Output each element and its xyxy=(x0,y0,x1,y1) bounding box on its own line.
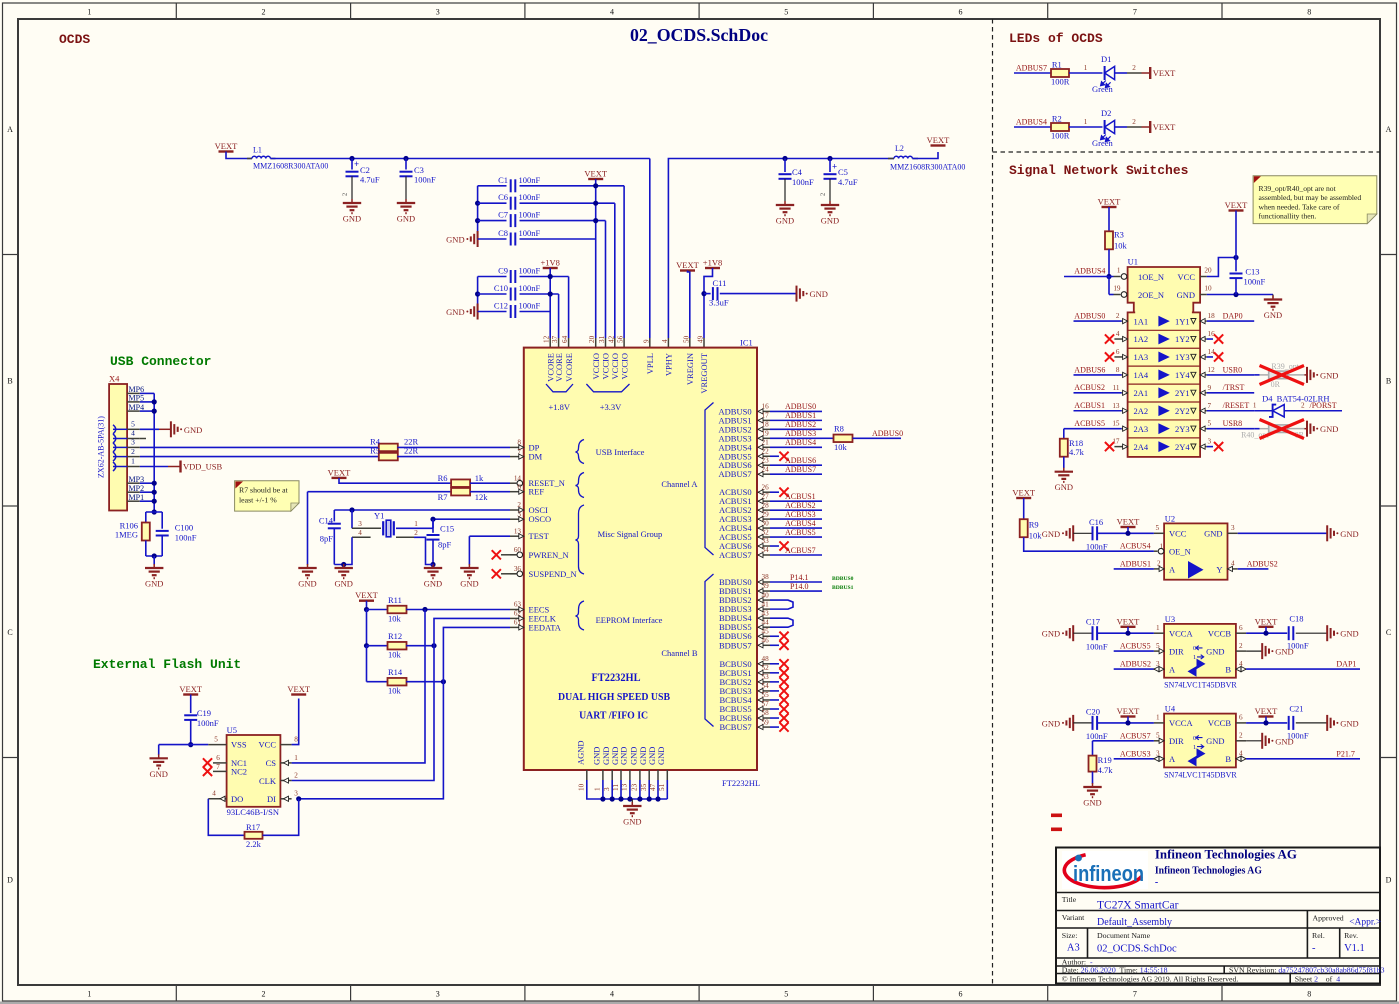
svg-text:3: 3 xyxy=(603,787,611,791)
wire EECLK net xyxy=(292,618,510,780)
capacitor C19 100nF xyxy=(184,714,197,716)
svg-text:VEXT: VEXT xyxy=(1255,706,1278,716)
resistor R106 1MEG xyxy=(145,512,147,523)
svg-text:49: 49 xyxy=(697,335,705,343)
ground GND (C15) xyxy=(432,564,434,568)
ground GND (U1) xyxy=(1272,295,1274,299)
svg-text:C13: C13 xyxy=(1245,266,1259,276)
svg-text:ADBUS1: ADBUS1 xyxy=(785,411,816,420)
svg-text:B: B xyxy=(1386,376,1391,385)
capacitor C4 100nF xyxy=(784,159,786,173)
svg-text:2: 2 xyxy=(342,193,349,196)
svg-text:2: 2 xyxy=(414,529,418,537)
svg-text:ADBUS2: ADBUS2 xyxy=(785,420,816,429)
svg-text:1: 1 xyxy=(1156,714,1160,722)
svg-text:+1V8: +1V8 xyxy=(540,258,559,268)
wire xyxy=(397,446,510,448)
svg-text:100R: 100R xyxy=(1051,76,1070,86)
svg-text:3: 3 xyxy=(294,790,298,798)
svg-text:10k: 10k xyxy=(834,442,848,452)
ground GND (U4 pin2) xyxy=(1261,733,1263,749)
svg-text:<Appr.>: <Appr.> xyxy=(1349,918,1381,928)
svg-text:DM: DM xyxy=(529,452,543,462)
svg-text:1Y1: 1Y1 xyxy=(1175,316,1190,326)
resistor R2 100R xyxy=(1051,123,1069,131)
svg-text:37: 37 xyxy=(551,335,559,343)
wire xyxy=(396,527,433,529)
svg-text:1MEG: 1MEG xyxy=(115,530,138,540)
svg-text:7: 7 xyxy=(1133,990,1137,999)
inductor L2 MMZ1608R300ATA00 xyxy=(888,158,894,160)
wire xyxy=(146,511,162,513)
svg-text:12: 12 xyxy=(543,335,551,343)
svg-text:ADBUS2: ADBUS2 xyxy=(1247,559,1278,568)
svg-text:GND: GND xyxy=(1206,736,1224,746)
wire xyxy=(367,681,388,683)
capacitor C20 100nF xyxy=(1073,722,1092,724)
X4 pin 1 xyxy=(127,466,140,468)
svg-text:100nF: 100nF xyxy=(197,718,219,728)
svg-text:2: 2 xyxy=(261,8,265,17)
wire xyxy=(433,519,510,528)
resistor R1 100R xyxy=(1051,69,1069,77)
svg-text:VEXT: VEXT xyxy=(1225,200,1248,210)
svg-text:GND: GND xyxy=(1042,529,1060,539)
svg-text:13: 13 xyxy=(621,783,629,791)
svg-text:51: 51 xyxy=(658,783,666,791)
svg-text:GND: GND xyxy=(1055,482,1073,492)
svg-text:ADBUS6: ADBUS6 xyxy=(785,456,816,465)
IC U3 SN74LVC1T45DBVR xyxy=(1164,624,1236,678)
svg-text:1: 1 xyxy=(131,457,135,466)
ground GND (C11) xyxy=(796,286,798,302)
svg-text:VEXT: VEXT xyxy=(584,169,607,179)
marker dash 2 xyxy=(1051,828,1062,832)
svg-text:1: 1 xyxy=(1193,654,1196,661)
svg-text:Channel A: Channel A xyxy=(661,479,698,489)
svg-text:4: 4 xyxy=(610,990,614,999)
svg-text:EEDATA: EEDATA xyxy=(529,622,562,632)
wire xyxy=(146,555,162,557)
svg-text:Y: Y xyxy=(1216,564,1222,574)
ground GND (C19) xyxy=(158,754,160,758)
svg-text:10: 10 xyxy=(1204,285,1212,293)
svg-text:BCBUS7: BCBUS7 xyxy=(719,722,751,732)
svg-text:D4: D4 xyxy=(1262,394,1273,404)
svg-text:2: 2 xyxy=(131,447,135,456)
svg-text:100nF: 100nF xyxy=(1086,542,1108,552)
X4 pin MP3 xyxy=(127,482,140,484)
wire xyxy=(853,437,902,439)
svg-text:VCORE: VCORE xyxy=(554,353,564,382)
svg-text:1: 1 xyxy=(594,787,602,791)
svg-text:U4: U4 xyxy=(1165,704,1176,714)
svg-text:10k: 10k xyxy=(1114,241,1128,251)
svg-text:3: 3 xyxy=(131,438,135,447)
svg-text:R17: R17 xyxy=(246,822,260,832)
svg-text:1: 1 xyxy=(1084,64,1088,72)
svg-text:4: 4 xyxy=(661,339,669,343)
svg-text:VEXT: VEXT xyxy=(1117,706,1140,716)
ground GND (C14) xyxy=(343,564,345,568)
resistor R4 22R xyxy=(379,444,398,452)
svg-text:100nF: 100nF xyxy=(1086,731,1108,741)
svg-text:14: 14 xyxy=(1208,348,1216,356)
svg-text:V1.1: V1.1 xyxy=(1344,943,1365,954)
svg-text:ADBUS7: ADBUS7 xyxy=(785,465,816,474)
svg-text:2: 2 xyxy=(1239,642,1243,650)
svg-text:7: 7 xyxy=(1133,8,1137,17)
resistor R5 22R xyxy=(379,453,398,461)
svg-text:Date: 26.06.2020 Time: 14:55:: Date: 26.06.2020 Time: 14:55:18 xyxy=(1062,965,1168,974)
svg-text:6: 6 xyxy=(216,754,220,762)
svg-text:2OE_N: 2OE_N xyxy=(1138,290,1164,300)
wire xyxy=(190,695,192,714)
capacitor C10 100nF xyxy=(478,293,507,295)
svg-text:NC2: NC2 xyxy=(231,767,247,777)
svg-text:1: 1 xyxy=(1193,744,1196,751)
capacitor C7 100nF xyxy=(478,220,507,222)
power VEXT (D1) xyxy=(1142,72,1150,74)
svg-text:GND: GND xyxy=(1042,629,1060,639)
svg-text:DI: DI xyxy=(267,794,276,804)
svg-text:GND: GND xyxy=(334,579,352,589)
X4 pin MP1 xyxy=(127,500,140,502)
IC U1 buffer channel section xyxy=(1128,312,1201,457)
svg-text:A: A xyxy=(7,125,13,134)
svg-text:Size:: Size: xyxy=(1062,931,1078,940)
svg-text:AGND: AGND xyxy=(576,740,586,765)
svg-text:C7: C7 xyxy=(498,210,508,220)
node C2 junction xyxy=(349,156,354,161)
svg-text:VCCA: VCCA xyxy=(1169,718,1193,728)
svg-text:8: 8 xyxy=(1307,990,1311,999)
wire xyxy=(1108,277,1110,295)
svg-text:ACBUS3: ACBUS3 xyxy=(1120,749,1151,758)
svg-text:VEXT: VEXT xyxy=(676,260,699,270)
svg-text:MMZ1608R300ATA00: MMZ1608R300ATA00 xyxy=(890,163,965,172)
svg-text:TC27X SmartCar: TC27X SmartCar xyxy=(1097,900,1179,912)
pin 56 stub xyxy=(623,338,625,348)
svg-text:L1: L1 xyxy=(253,146,262,155)
svg-text:1: 1 xyxy=(1156,624,1160,632)
svg-text:GND: GND xyxy=(460,579,478,589)
svg-text:4.7uF: 4.7uF xyxy=(838,177,858,187)
svg-text:R7: R7 xyxy=(438,492,448,502)
svg-text:8: 8 xyxy=(1307,8,1311,17)
svg-text:BDBUS1: BDBUS1 xyxy=(832,585,854,591)
svg-text:2: 2 xyxy=(294,771,298,779)
svg-text:7: 7 xyxy=(1208,402,1212,410)
capacitor C15 8pF xyxy=(432,519,434,533)
wire Y1 pin4 to ground xyxy=(352,536,371,538)
wire xyxy=(1069,126,1103,128)
svg-text:GND: GND xyxy=(145,579,163,589)
svg-text:C: C xyxy=(1386,628,1391,637)
svg-text:VEXT: VEXT xyxy=(215,141,238,151)
svg-text:1A3: 1A3 xyxy=(1134,352,1149,362)
resistor R12 10k xyxy=(388,642,407,650)
pin 4 VPHY stub xyxy=(667,338,669,348)
X4 pin 4 xyxy=(127,438,140,440)
svg-text:8: 8 xyxy=(294,736,298,744)
pin 12 stub xyxy=(549,338,551,348)
ground GND (U3 pin2) xyxy=(1261,643,1263,659)
svg-text:U3: U3 xyxy=(1165,614,1175,624)
capacitor C16 100nF xyxy=(1073,532,1092,534)
svg-text:VCCIO: VCCIO xyxy=(619,353,629,379)
svg-text:U2: U2 xyxy=(1165,514,1175,524)
svg-text:ACBUS4: ACBUS4 xyxy=(1120,542,1151,551)
resistor R7 12k xyxy=(451,488,470,496)
svg-text:20: 20 xyxy=(588,335,596,343)
wire pin5 to ground xyxy=(140,428,159,430)
wire xyxy=(688,271,690,339)
ground GND (C2) xyxy=(351,199,353,203)
svg-text:Infineon Technologies AG: Infineon Technologies AG xyxy=(1155,848,1297,862)
svg-text:LEDs of OCDS: LEDs of OCDS xyxy=(1009,31,1103,46)
unused pin PWREN_N xyxy=(501,554,516,556)
svg-text:16: 16 xyxy=(1208,330,1216,338)
svg-text:20: 20 xyxy=(1204,267,1212,275)
svg-text:DIR: DIR xyxy=(1169,646,1184,656)
wire TEST to ground xyxy=(469,535,510,537)
svg-text:2: 2 xyxy=(261,990,265,999)
svg-text:35: 35 xyxy=(640,783,648,791)
wire xyxy=(1097,632,1154,634)
svg-text:ACBUS7: ACBUS7 xyxy=(785,546,816,555)
svg-text:ADBUS4: ADBUS4 xyxy=(785,438,816,447)
wire loop BDBUS2-BDBUS3 xyxy=(770,600,793,609)
svg-text:REF: REF xyxy=(529,487,545,497)
wire GND bus xyxy=(602,770,604,780)
svg-text:TEST: TEST xyxy=(529,531,550,541)
wire EECS net xyxy=(406,609,510,611)
ground GND (R18) xyxy=(1063,468,1065,472)
capacitor C5 4.7uF xyxy=(829,159,831,173)
svg-text:4.7k: 4.7k xyxy=(1069,447,1085,457)
svg-text:100nF: 100nF xyxy=(519,210,541,220)
wire left bus C9-C12 xyxy=(477,277,479,312)
svg-text:56: 56 xyxy=(617,335,625,343)
svg-text:GND: GND xyxy=(397,214,415,224)
svg-text:10k: 10k xyxy=(1029,531,1043,541)
svg-text:VEXT: VEXT xyxy=(355,590,378,600)
svg-text:12k: 12k xyxy=(475,492,489,502)
node C3 junction xyxy=(403,156,408,161)
svg-text:C15: C15 xyxy=(440,523,454,533)
svg-text:0R: 0R xyxy=(1271,380,1281,389)
svg-text:/PORST: /PORST xyxy=(1310,401,1337,410)
svg-text:GND: GND xyxy=(623,817,641,827)
svg-text:1: 1 xyxy=(87,990,91,999)
svg-text:100nF: 100nF xyxy=(1244,277,1266,287)
svg-text:2A2: 2A2 xyxy=(1134,406,1149,416)
svg-text:GND: GND xyxy=(1275,647,1293,657)
svg-text:GND: GND xyxy=(1340,529,1358,539)
svg-text:1OE_N: 1OE_N xyxy=(1138,272,1164,282)
svg-text:GND: GND xyxy=(1083,798,1101,808)
svg-text:C5: C5 xyxy=(838,167,848,177)
svg-text:A: A xyxy=(1169,564,1176,574)
svg-text:SN74LVC1T45DBVR: SN74LVC1T45DBVR xyxy=(1164,681,1237,690)
ground GND (C9 group) xyxy=(477,304,479,320)
wire xyxy=(366,601,368,610)
wire left bus C1-C8 xyxy=(477,186,479,239)
IC U1 main body FT2232HL (IC1) xyxy=(524,348,757,770)
X4 pin MP5 xyxy=(127,401,140,403)
svg-text:DAP0: DAP0 xyxy=(1223,312,1243,321)
svg-text:100nF: 100nF xyxy=(414,175,436,185)
svg-text:0: 0 xyxy=(1193,645,1196,652)
ground GND (C1 group) xyxy=(477,231,479,247)
wire CS net xyxy=(292,610,425,763)
svg-text:infineon: infineon xyxy=(1073,861,1144,886)
svg-text:5: 5 xyxy=(1156,524,1160,532)
wire xyxy=(367,645,388,647)
wire xyxy=(1014,72,1051,74)
ground GND (C18) xyxy=(1326,625,1328,641)
svg-text:/TRST: /TRST xyxy=(1223,383,1245,392)
svg-text:31: 31 xyxy=(598,335,606,343)
wire VCORE drops xyxy=(558,294,560,338)
X4 pin MP2 xyxy=(127,491,140,493)
svg-text:5: 5 xyxy=(131,420,135,429)
svg-text:4: 4 xyxy=(610,8,614,17)
capacitor C18 100nF xyxy=(1288,626,1290,640)
crystal Y1 xyxy=(352,527,381,529)
wire xyxy=(1064,276,1114,278)
svg-text:GND: GND xyxy=(298,579,316,589)
wire loop BDBUS4-BDBUS5 xyxy=(770,618,793,627)
svg-text:3: 3 xyxy=(1208,438,1212,446)
svg-text:VEXT: VEXT xyxy=(1255,616,1278,626)
svg-text:R3: R3 xyxy=(1114,230,1124,240)
svg-text:2: 2 xyxy=(1239,732,1243,740)
title block xyxy=(1056,848,1380,984)
svg-text:VEXT: VEXT xyxy=(1117,616,1140,626)
svg-text:VEXT: VEXT xyxy=(1098,197,1121,207)
svg-text:10k: 10k xyxy=(388,650,402,660)
svg-text:DIR: DIR xyxy=(1169,736,1184,746)
svg-text:PWREN_N: PWREN_N xyxy=(529,550,569,560)
svg-text:R19: R19 xyxy=(1098,755,1112,765)
svg-text:11: 11 xyxy=(1113,384,1120,392)
wire VPHY rail xyxy=(668,159,894,339)
svg-text:USR8: USR8 xyxy=(1223,419,1243,428)
wire VPLL drop xyxy=(649,159,651,339)
svg-text:VEXT: VEXT xyxy=(179,684,202,694)
svg-text:5: 5 xyxy=(1208,420,1212,428)
svg-text:8pF: 8pF xyxy=(320,534,334,544)
ground GND (C16) xyxy=(1072,525,1074,541)
svg-text:ACBUS1: ACBUS1 xyxy=(1074,401,1105,410)
svg-text:DAP1: DAP1 xyxy=(1336,660,1356,669)
svg-text:ACBUS5: ACBUS5 xyxy=(1074,419,1105,428)
svg-text:1: 1 xyxy=(1253,402,1257,410)
connector X4 ZX62-AB-5PA(31) xyxy=(109,384,127,511)
svg-text:Green: Green xyxy=(1092,138,1114,148)
svg-text:CS: CS xyxy=(266,758,277,768)
wire xyxy=(720,293,797,295)
svg-text:assembled, but may be assemble: assembled, but may be assembled xyxy=(1259,193,1362,202)
svg-text:BDBUS7: BDBUS7 xyxy=(719,640,752,650)
svg-text:GND: GND xyxy=(184,425,202,435)
svg-text:ACBUS1: ACBUS1 xyxy=(785,492,816,501)
svg-text:100R: 100R xyxy=(1051,130,1070,140)
svg-text:GND: GND xyxy=(1340,718,1358,728)
svg-text:CLK: CLK xyxy=(259,776,277,786)
svg-text:GND: GND xyxy=(1340,629,1358,639)
capacitor C6 100nF xyxy=(478,202,507,204)
svg-text:4: 4 xyxy=(358,529,362,537)
svg-text:VEXT: VEXT xyxy=(287,684,310,694)
Infineon logo xyxy=(1062,851,1148,889)
svg-text:ACBUS2: ACBUS2 xyxy=(785,501,816,510)
svg-text:ADBUS4: ADBUS4 xyxy=(1016,118,1047,127)
svg-text:ACBUS4: ACBUS4 xyxy=(785,519,816,528)
wire Y1 pin2 to ground xyxy=(396,536,414,538)
svg-text:R2: R2 xyxy=(1052,114,1062,124)
svg-text:6: 6 xyxy=(1239,714,1243,722)
svg-text:8: 8 xyxy=(1116,366,1120,374)
svg-text:42: 42 xyxy=(607,335,615,343)
svg-text:least +/-1 %: least +/-1 % xyxy=(239,495,277,504)
capacitor C11 3.3uF xyxy=(704,293,711,295)
svg-text:GND: GND xyxy=(1206,646,1224,656)
svg-text:1Y3: 1Y3 xyxy=(1175,352,1190,362)
svg-text:C17: C17 xyxy=(1086,617,1100,627)
svg-text:50: 50 xyxy=(682,335,690,343)
ground GND (C5) xyxy=(829,201,831,205)
pin 49 stub xyxy=(703,338,705,348)
wire xyxy=(226,152,252,159)
svg-text:GND: GND xyxy=(1275,736,1293,746)
svg-text:Variant: Variant xyxy=(1062,913,1085,922)
wire xyxy=(470,491,510,493)
ground GND (R40) xyxy=(1304,428,1307,430)
svg-text:2: 2 xyxy=(1116,312,1120,320)
svg-text:VDD_USB: VDD_USB xyxy=(183,462,223,472)
wire xyxy=(704,268,713,338)
svg-text:2.2k: 2.2k xyxy=(246,839,262,849)
wire DP net xyxy=(140,446,379,448)
svg-text:100nF: 100nF xyxy=(519,228,541,238)
wire xyxy=(367,609,388,611)
svg-text:1Y2: 1Y2 xyxy=(1175,334,1190,344)
svg-text:GND: GND xyxy=(149,769,167,779)
inductor L1 MMZ1608R300ATA00 xyxy=(247,158,252,160)
svg-text:FT2232HL: FT2232HL xyxy=(592,672,641,684)
svg-text:BDBUS0: BDBUS0 xyxy=(832,576,854,582)
svg-text:ACBUS5: ACBUS5 xyxy=(785,528,816,537)
svg-text:-: - xyxy=(1155,877,1158,888)
svg-text:VCORE: VCORE xyxy=(564,353,574,382)
svg-text:VEXT: VEXT xyxy=(328,467,351,477)
ground GND (IC1) xyxy=(631,799,633,805)
svg-text:functionallity then.: functionallity then. xyxy=(1259,212,1317,221)
svg-text:SVN Revision: da75247807cb30a8: SVN Revision: da75247807cb30a8ab86d75f81… xyxy=(1229,965,1385,974)
svg-text:+1V8: +1V8 xyxy=(703,258,722,268)
svg-text:C16: C16 xyxy=(1089,517,1103,527)
svg-text:P14.0: P14.0 xyxy=(790,582,808,591)
wire REF net xyxy=(308,491,452,493)
svg-text:GND: GND xyxy=(1320,424,1338,434)
svg-text:GND: GND xyxy=(1177,290,1195,300)
svg-text:5: 5 xyxy=(214,736,218,744)
svg-text:P21.7: P21.7 xyxy=(1336,749,1354,758)
capacitor C1 100nF xyxy=(478,185,507,187)
